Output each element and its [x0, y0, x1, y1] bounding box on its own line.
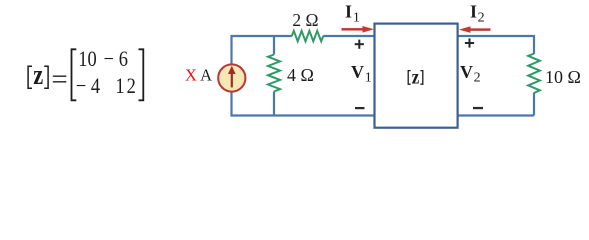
svg-text:z: z: [412, 66, 420, 89]
svg-text:12: 12: [115, 74, 137, 98]
svg-text:z: z: [33, 60, 43, 91]
svg-text:4 Ω: 4 Ω: [287, 65, 314, 85]
svg-text:− 4: − 4: [76, 74, 100, 98]
svg-text:V: V: [351, 62, 364, 82]
svg-text:V: V: [460, 62, 473, 82]
svg-text:10: 10: [78, 47, 96, 71]
svg-text:− 6: − 6: [104, 47, 128, 71]
svg-text:I: I: [345, 2, 352, 22]
svg-text:I: I: [470, 2, 477, 22]
svg-text:1: 1: [365, 70, 372, 85]
svg-text:2: 2: [478, 10, 485, 25]
svg-text:10 Ω: 10 Ω: [545, 67, 581, 87]
svg-text:1: 1: [353, 10, 360, 25]
svg-text:2: 2: [474, 71, 481, 86]
svg-text:2 Ω: 2 Ω: [292, 10, 318, 30]
svg-text:=: =: [51, 64, 67, 96]
svg-text:X A: X A: [185, 66, 212, 85]
